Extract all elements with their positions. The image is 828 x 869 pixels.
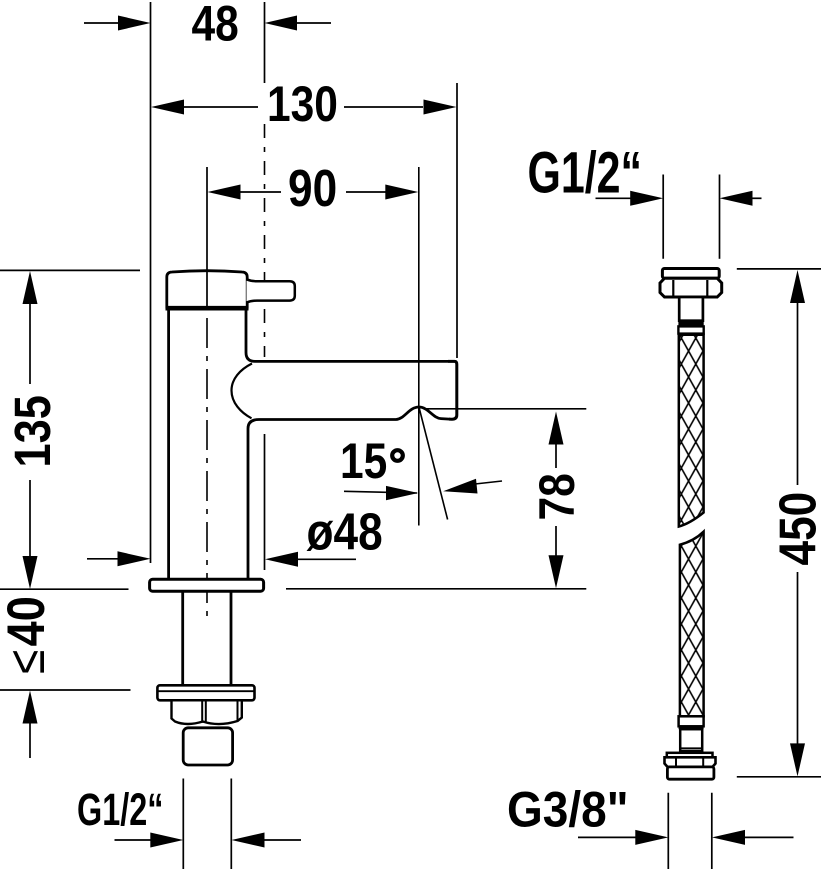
washer lip line <box>157 690 254 692</box>
hose top white band <box>678 326 703 333</box>
dimension 450: bottom reference line <box>737 776 821 778</box>
dimension G1/2 top: right extension line <box>719 175 721 259</box>
dimension G1/2 top: left arrow <box>596 191 664 206</box>
dimension 48: left arrow <box>84 16 151 31</box>
body/spout intersection curve <box>232 364 253 419</box>
hose top cap <box>662 269 719 279</box>
faucet body right edge and spout top <box>246 311 448 362</box>
dimension G1/2 bottom: left extension line <box>182 779 184 869</box>
faucet center line through knob <box>206 167 208 308</box>
flange right edge axis line (dash, upper) <box>264 124 266 357</box>
hose top tube <box>679 297 703 321</box>
dimension max40: bottom arrow <box>23 691 38 759</box>
dimension G3/8: right arrow <box>712 830 794 845</box>
dimension 90: right arrow <box>346 185 418 200</box>
faucet body center line (dash-dot) <box>206 318 208 616</box>
hose top hex nut <box>660 278 722 297</box>
dimension 130: right extension line (spout tip) <box>456 83 458 358</box>
svg-text:450: 450 <box>769 492 827 566</box>
shank hex nut <box>172 700 242 724</box>
dimension 15deg: leader and left arrow <box>344 486 418 500</box>
flange right edge extension (solid, lower) <box>264 434 266 570</box>
dimension 450: bottom arrow <box>790 572 805 776</box>
svg-text:G1/2“: G1/2“ <box>528 140 643 205</box>
dimension 135: top reference line <box>0 269 140 271</box>
dimension 78: top reference line <box>424 408 586 410</box>
dimension G1/2 bottom: right extension line <box>230 779 232 869</box>
braided hose upper segment <box>679 335 704 527</box>
svg-text:15: 15 <box>340 433 387 489</box>
hose bottom nut facets <box>675 757 677 766</box>
threaded shank right edge <box>230 592 233 686</box>
dimension G3/8: left arrow <box>578 830 668 845</box>
svg-text:130: 130 <box>267 76 338 132</box>
hose top crimp band <box>678 321 703 327</box>
dimension 90: left arrow <box>208 185 282 200</box>
shank threaded end <box>183 728 232 765</box>
dimension diameter 48: left arrow <box>87 551 151 566</box>
faucet knob bottom bar <box>166 306 249 311</box>
threaded shank left edge <box>181 592 184 686</box>
hose bottom cylinder <box>667 767 714 779</box>
mounting surface line left <box>0 588 129 590</box>
hose bottom crimp white band <box>679 716 704 726</box>
faucet base flange <box>150 579 264 591</box>
dimension 130: right arrow <box>344 100 457 115</box>
shank washer <box>157 685 254 700</box>
dimension 48: right extension line <box>264 2 266 83</box>
dimension 78: vertical line with arrows <box>549 412 564 469</box>
dimension 90: right extension line / outlet axis / 15deg reference <box>418 167 420 526</box>
spout end face <box>448 361 457 419</box>
dimension diameter 48: right arrow and leader <box>265 552 356 567</box>
dimension 48: left extension line (flange left edge) <box>150 2 152 563</box>
dimension G1/2 bottom: right arrow <box>232 833 302 848</box>
hose bottom dark band <box>679 726 704 729</box>
svg-text:78: 78 <box>529 473 585 520</box>
svg-text:135: 135 <box>5 395 62 467</box>
dimension G1/2 bottom: left arrow <box>115 833 184 848</box>
dimension G3/8: right extension line <box>711 793 713 869</box>
dimension 135: top arrow <box>23 271 38 384</box>
dimension 450: top arrow <box>790 270 805 485</box>
hose bottom nut flange <box>667 753 713 758</box>
mounting surface line right <box>286 588 586 590</box>
hose bottom tube line <box>680 747 702 749</box>
dimension 450: top reference line <box>737 268 821 270</box>
svg-text:G1/2“: G1/2“ <box>77 786 163 835</box>
faucet body left edge <box>167 311 170 580</box>
faucet handle knob <box>167 271 247 309</box>
braided hose lower segment <box>680 532 704 717</box>
dimension G1/2 top: right arrow <box>720 191 762 206</box>
hose top nut facets <box>672 280 674 296</box>
15 degree slant line <box>419 409 447 520</box>
dimension 48: right arrow <box>265 16 332 31</box>
spout underside with outlet bump, body right edge below spout <box>248 407 450 579</box>
counter underside line <box>0 689 131 691</box>
dimension 15deg: right arrow <box>443 479 502 494</box>
svg-text:ø48: ø48 <box>307 503 383 561</box>
faucet handle lever <box>247 279 295 302</box>
hose bottom hex nut <box>665 757 716 767</box>
shank hex nut facets <box>201 700 203 723</box>
dimension 135: bottom arrow <box>23 480 38 589</box>
dimension G3/8: left extension line <box>667 793 669 869</box>
svg-text:≤40: ≤40 <box>0 596 56 674</box>
svg-text:G3/8": G3/8" <box>507 783 629 838</box>
dimension 130: left arrow <box>151 100 258 115</box>
hose bottom tube <box>680 729 702 751</box>
svg-text:48: 48 <box>192 0 239 51</box>
svg-text:90: 90 <box>288 160 337 218</box>
dimension G1/2 top: left extension line <box>662 175 664 259</box>
